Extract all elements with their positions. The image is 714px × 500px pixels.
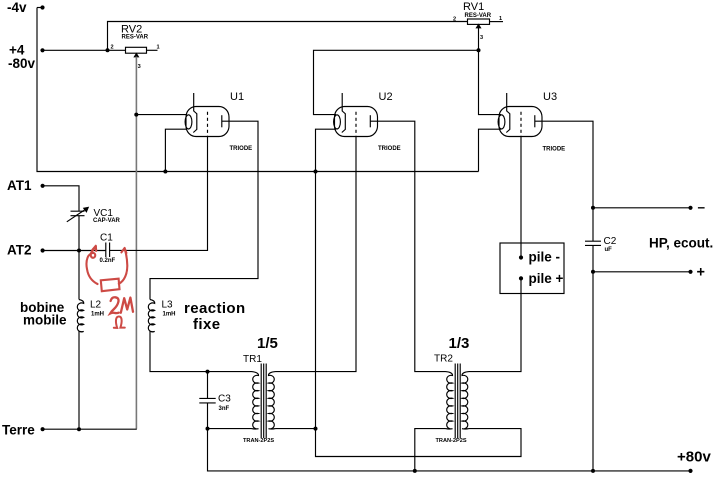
wire Terre ground lead: [43, 428, 137, 430]
wire U1 filament top lead: [136, 114, 187, 116]
triode U2 cathode: [342, 111, 346, 133]
triode U3 plate bar: [534, 115, 536, 127]
triode U3 envelope: [499, 107, 542, 137]
svg-text:1mH: 1mH: [91, 312, 104, 318]
wire RV1 node down to U3 filament top: [479, 50, 502, 114]
transformer TR1 secondary winding: [268, 372, 275, 429]
wire RV1 wiper drop: [478, 27, 480, 50]
svg-text:pile +: pile +: [529, 271, 564, 286]
wire TR2 secondary top to pile plus: [469, 278, 521, 371]
svg-text:Terre: Terre: [2, 422, 35, 437]
triode U3 filament loop: [498, 115, 505, 129]
variable capacitor VC1 arrow: [67, 207, 88, 221]
transformer TR2 primary winding: [446, 372, 453, 429]
node U2 filament bottom junction on -4v rail: [314, 170, 318, 174]
triode U2 envelope: [335, 107, 378, 137]
wire HP minus lead: [593, 207, 691, 209]
svg-text:CAP-VAR: CAP-VAR: [93, 218, 121, 224]
svg-text:uF: uF: [605, 247, 613, 253]
transformer TR2 secondary winding: [462, 372, 469, 429]
node U1 filament top junction: [134, 113, 138, 117]
node Terre terminal dot: [41, 427, 45, 431]
svg-text:-80v: -80v: [8, 56, 36, 71]
triode U2 filament loop: [334, 115, 341, 129]
svg-text:reaction: reaction: [184, 300, 246, 317]
svg-text:AT2: AT2: [7, 243, 32, 258]
triode U1 cathode: [193, 111, 197, 133]
red annotation handwritten digit 2: [110, 297, 119, 313]
wire HP plus lead: [593, 271, 691, 273]
svg-text:U2: U2: [379, 91, 393, 103]
red annotation handwritten omega: [114, 316, 125, 327]
svg-text:AT1: AT1: [7, 178, 32, 193]
wire U1 grid drop to C1 node: [110, 137, 208, 251]
wire TR1 primary bottom: [208, 428, 252, 430]
svg-text:TRAN-2P2S: TRAN-2P2S: [436, 438, 467, 444]
svg-text:–: –: [698, 200, 706, 215]
wire U3 grid drop to pile minus: [520, 137, 522, 258]
wire VC1 to AT2 node down to L2: [78, 216, 80, 300]
triode U2 plate bar: [369, 115, 371, 127]
svg-text:0.2nF: 0.2nF: [100, 258, 116, 264]
wire AT1 to tuning branch: [43, 186, 79, 211]
node C2 branch on +80v bus: [591, 469, 595, 473]
triode U1 top pin: [193, 93, 195, 111]
triode U3 top pin: [506, 93, 508, 111]
wire L2 bottom to Terre: [78, 331, 80, 429]
svg-text:TRIODE: TRIODE: [543, 147, 566, 153]
wire below C2: [592, 245, 594, 471]
svg-text:fixe: fixe: [193, 316, 220, 333]
wire U1 filament bottom lead down to -4v rail: [165, 129, 187, 171]
svg-text:U1: U1: [230, 91, 244, 103]
node -4v terminal dot: [40, 5, 44, 9]
node +80v terminal dot: [688, 469, 692, 473]
svg-text:TR1: TR1: [243, 354, 262, 365]
wire U2 plate to TR2 primary top: [370, 121, 445, 371]
svg-text:mobile: mobile: [23, 313, 67, 328]
node U1 filament bottom junction on -4v rail: [163, 170, 167, 174]
wire U2 filament bottom lead long return down to TR2 secondary: [316, 129, 522, 456]
triode U1 grid dashed: [207, 112, 209, 137]
red annotation left arrow and curl around C1: [86, 247, 97, 285]
transformer TR1 primary winding: [252, 372, 259, 429]
wire RV1 wiper arrow: [477, 25, 481, 28]
svg-text:2: 2: [453, 17, 456, 23]
wire RV1 node to U2 filament top: [314, 50, 479, 114]
node L2 bottom junction: [77, 427, 81, 431]
svg-text:1/5: 1/5: [257, 335, 278, 352]
inductor L3 winding: [148, 300, 154, 332]
svg-text:1/3: 1/3: [449, 335, 470, 352]
red annotation handwritten letter M: [121, 298, 133, 313]
svg-text:+: +: [697, 265, 705, 281]
svg-text:TR2: TR2: [434, 354, 453, 365]
svg-text:3: 3: [138, 64, 141, 70]
svg-text:L3: L3: [162, 300, 174, 311]
battery box pile: [500, 243, 564, 294]
triode U3 grid dashed: [520, 112, 522, 137]
variable capacitor VC1 plates: [71, 211, 85, 216]
red annotation right arrowhead: [121, 248, 126, 253]
svg-text:C2: C2: [604, 236, 617, 247]
node AT1 terminal dot: [41, 184, 45, 188]
svg-text:U3: U3: [543, 91, 557, 103]
svg-text:3: 3: [480, 35, 483, 41]
wire AT2 lead to C1: [43, 250, 106, 252]
svg-text:RV1: RV1: [463, 1, 484, 13]
triode U3 cathode: [506, 111, 510, 133]
triode U2 top pin: [341, 93, 343, 111]
svg-text:HP, ecout.: HP, ecout.: [649, 236, 713, 251]
node AT2 junction: [77, 249, 81, 253]
wire U1 plate to reaction coil L3: [150, 121, 258, 299]
triode U1 plate bar: [221, 115, 223, 127]
svg-text:TRAN-2P2S: TRAN-2P2S: [243, 438, 274, 444]
svg-text:TRIODE: TRIODE: [230, 146, 253, 152]
wire +80v bottom bus: [208, 429, 691, 471]
node AT2 terminal dot: [41, 248, 45, 252]
red annotation left arrowhead: [92, 246, 96, 251]
potentiometer RV1 body: [468, 19, 490, 24]
wire RV2 pin2 riser to top bus: [108, 22, 468, 51]
wire TR1 secondary top to U2 grid: [276, 137, 357, 372]
svg-text:C1: C1: [100, 233, 113, 244]
capacitor C2 plates: [585, 241, 601, 245]
node pile plus terminal: [519, 276, 523, 280]
wire -4v rail: left vertical and horizontal filament-negative bus: [37, 8, 479, 172]
svg-text:1: 1: [499, 16, 502, 22]
wire TR2 primary bottom to +80v bus: [415, 429, 446, 471]
svg-text:C3: C3: [218, 394, 231, 405]
svg-text:pile -: pile -: [529, 250, 561, 265]
wire U3 plate to output node: [535, 121, 593, 241]
inductor L2 winding: [77, 300, 83, 332]
node HP minus terminal: [688, 206, 692, 210]
svg-text:1mH: 1mH: [163, 312, 176, 318]
node HP minus junction: [591, 206, 595, 210]
potentiometer RV2 body: [126, 47, 147, 53]
node -4v terminal stub: [37, 7, 43, 9]
wire C3 bottom branch: [207, 403, 209, 429]
red annotation right arc: [119, 249, 128, 284]
transformer TR2 core: [455, 364, 460, 439]
transformer TR1 core: [261, 364, 266, 439]
triode U1 filament loop: [185, 115, 192, 129]
wire RV2 wiper long gray line down to Terre wire: [135, 57, 137, 429]
node HP plus junction: [591, 270, 595, 274]
node RV1 wiper junction: [477, 48, 481, 52]
wire L3 bottom to TR1 primary top: [150, 331, 252, 372]
node +4 terminal dot: [40, 48, 44, 52]
wire RV2 pin1 stub: [147, 49, 158, 51]
node RV2 pin2 junction: [106, 48, 110, 52]
wire C3 top branch: [207, 372, 209, 399]
wire U3 filament bottom lead to -4v rail end: [479, 129, 502, 171]
svg-text:1: 1: [157, 45, 160, 51]
capacitor C3 plates: [199, 398, 215, 403]
node C3 bottom junction: [206, 427, 210, 431]
svg-text:-4v: -4v: [7, 0, 27, 15]
node TR2 primary bottom on +80v bus: [413, 469, 417, 473]
potentiometer RV2 wiper arrow: [134, 54, 138, 57]
wire TR1 secondary bottom to -4v return line: [276, 428, 316, 430]
svg-text:L2: L2: [90, 300, 102, 311]
svg-text:3nF: 3nF: [219, 406, 230, 412]
svg-text:TRIODE: TRIODE: [378, 146, 401, 152]
wire +4 feed to RV2 pin2: [43, 49, 126, 51]
red annotation resistor box: [101, 279, 120, 292]
svg-text:RES-VAR: RES-VAR: [465, 13, 492, 19]
triode U1 envelope: [186, 107, 229, 137]
capacitor C1 plates: [106, 243, 110, 258]
node C3 top junction: [206, 370, 210, 374]
svg-text:RES-VAR: RES-VAR: [122, 35, 149, 41]
svg-text:2: 2: [111, 45, 114, 51]
node HP plus terminal: [688, 270, 692, 274]
triode U2 grid dashed: [355, 112, 357, 137]
node TR1 secondary bottom junction: [314, 427, 318, 431]
wire RV1 pin1 stub: [490, 21, 504, 23]
node pile minus terminal: [519, 255, 523, 259]
svg-text:+80v: +80v: [677, 449, 711, 466]
